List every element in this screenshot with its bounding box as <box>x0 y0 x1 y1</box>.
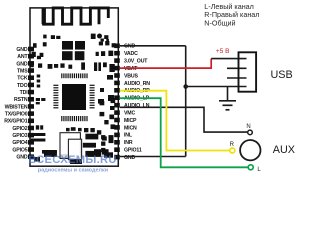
IC U2 left pin row <box>53 85 58 108</box>
svg-text:GPIO5: GPIO5 <box>12 147 27 153</box>
wire GND bottom (black): right pin GND16 to vertical bus <box>120 156 186 158</box>
svg-text:INL: INL <box>124 133 133 139</box>
USB connector J1 body <box>239 52 257 91</box>
terminal R (right channel) <box>230 148 235 153</box>
IC U2 bottom pin row <box>62 116 87 121</box>
antenna end stub <box>99 8 108 18</box>
svg-text:AUDIO_RN: AUDIO_RN <box>124 81 150 87</box>
IC U2 top pin row <box>61 73 88 78</box>
IC U2 right pin row <box>90 85 95 108</box>
USB pin 3 lead <box>227 77 247 79</box>
SMD components scatter (upper board) <box>30 34 115 73</box>
svg-text:VBAT: VBAT <box>124 66 138 72</box>
svg-text:TMS: TMS <box>17 68 28 74</box>
svg-text:+5 В: +5 В <box>216 48 230 55</box>
left pin pads column (pins 1-16) <box>28 47 34 159</box>
svg-text:N: N <box>246 124 250 130</box>
antenna meander trace <box>44 8 99 24</box>
svg-text:GPIO2: GPIO2 <box>12 126 27 132</box>
wire GND branch to USB pin4 <box>185 86 247 88</box>
right pin name labels <box>124 44 150 161</box>
right pin pads column (pins 17-32) <box>114 44 120 160</box>
junction node dot <box>183 84 188 89</box>
USB connector J1 ground stem <box>227 87 229 101</box>
svg-text:MICP: MICP <box>124 118 137 124</box>
SMD components left mid column <box>31 75 116 155</box>
svg-text:AUX: AUX <box>273 144 295 156</box>
svg-text:WBISTEN: WBISTEN <box>5 104 28 110</box>
svg-text:ANT: ANT <box>17 54 28 60</box>
svg-text:GND: GND <box>16 61 27 67</box>
svg-text:R: R <box>230 142 235 148</box>
svg-text:AUDIO_LN: AUDIO_LN <box>124 103 150 109</box>
svg-text:3.0V_OUT: 3.0V_OUT <box>124 59 148 65</box>
svg-text:TDI: TDI <box>20 90 29 96</box>
svg-text:GPIO11: GPIO11 <box>124 148 142 154</box>
svg-text:VMC: VMC <box>124 110 135 116</box>
terminal N (common) <box>248 130 253 135</box>
crystal white outline rect B <box>68 139 81 159</box>
wire AUDIO_RP right channel (yellow) <box>120 91 230 151</box>
svg-text:TDO: TDO <box>17 83 28 89</box>
svg-text:RX/GPIO1: RX/GPIO1 <box>4 119 28 125</box>
wire AUDIO_LN to N terminal (black) <box>120 107 248 132</box>
svg-text:ВСЕСХЕМЫ.RU: ВСЕСХЕМЫ.RU <box>28 154 117 166</box>
wire VBAT +5V (red) <box>120 59 211 69</box>
AUX jack J2 body circle <box>240 140 260 160</box>
svg-text:GND: GND <box>124 44 135 50</box>
module U1 board outline (BK8000L bluetooth module) <box>30 8 118 166</box>
svg-text:GPIO4: GPIO4 <box>12 140 27 146</box>
wire GND vertical bus (black) <box>185 46 187 157</box>
wire GND top (black): right pin GND to vertical bus <box>120 45 186 47</box>
svg-text:INR: INR <box>124 140 133 146</box>
svg-text:GND: GND <box>16 155 27 161</box>
USB pin 2 lead <box>227 67 247 69</box>
svg-text:GPIO3: GPIO3 <box>12 133 27 139</box>
wire AUDIO_LP left channel (green) <box>120 98 248 167</box>
svg-text:VBUS: VBUS <box>124 73 139 79</box>
SMD components right mid column <box>34 75 115 164</box>
legend text (Russian) <box>204 2 259 27</box>
svg-text:MICN: MICN <box>124 125 137 131</box>
antenna feed bar (thick) <box>42 8 46 24</box>
shielded component / crystal white outline rect A <box>60 133 80 159</box>
svg-text:радиосхемы и самоделки: радиосхемы и самоделки <box>38 168 108 174</box>
ground symbol <box>219 101 236 110</box>
svg-text:TCK: TCK <box>17 76 28 82</box>
left pin name labels <box>4 47 28 161</box>
terminal L (left channel) <box>248 165 253 170</box>
USB pin 1 (+5V) lead <box>211 58 246 60</box>
svg-text:GND: GND <box>16 47 27 53</box>
svg-text:USB: USB <box>271 69 293 81</box>
svg-text:TX/GPIO0: TX/GPIO0 <box>5 112 28 118</box>
svg-text:RSTN: RSTN <box>14 97 28 103</box>
IC U2 body <box>62 84 86 110</box>
svg-text:N-Общий: N-Общий <box>204 18 235 27</box>
svg-text:VADC: VADC <box>124 51 138 57</box>
